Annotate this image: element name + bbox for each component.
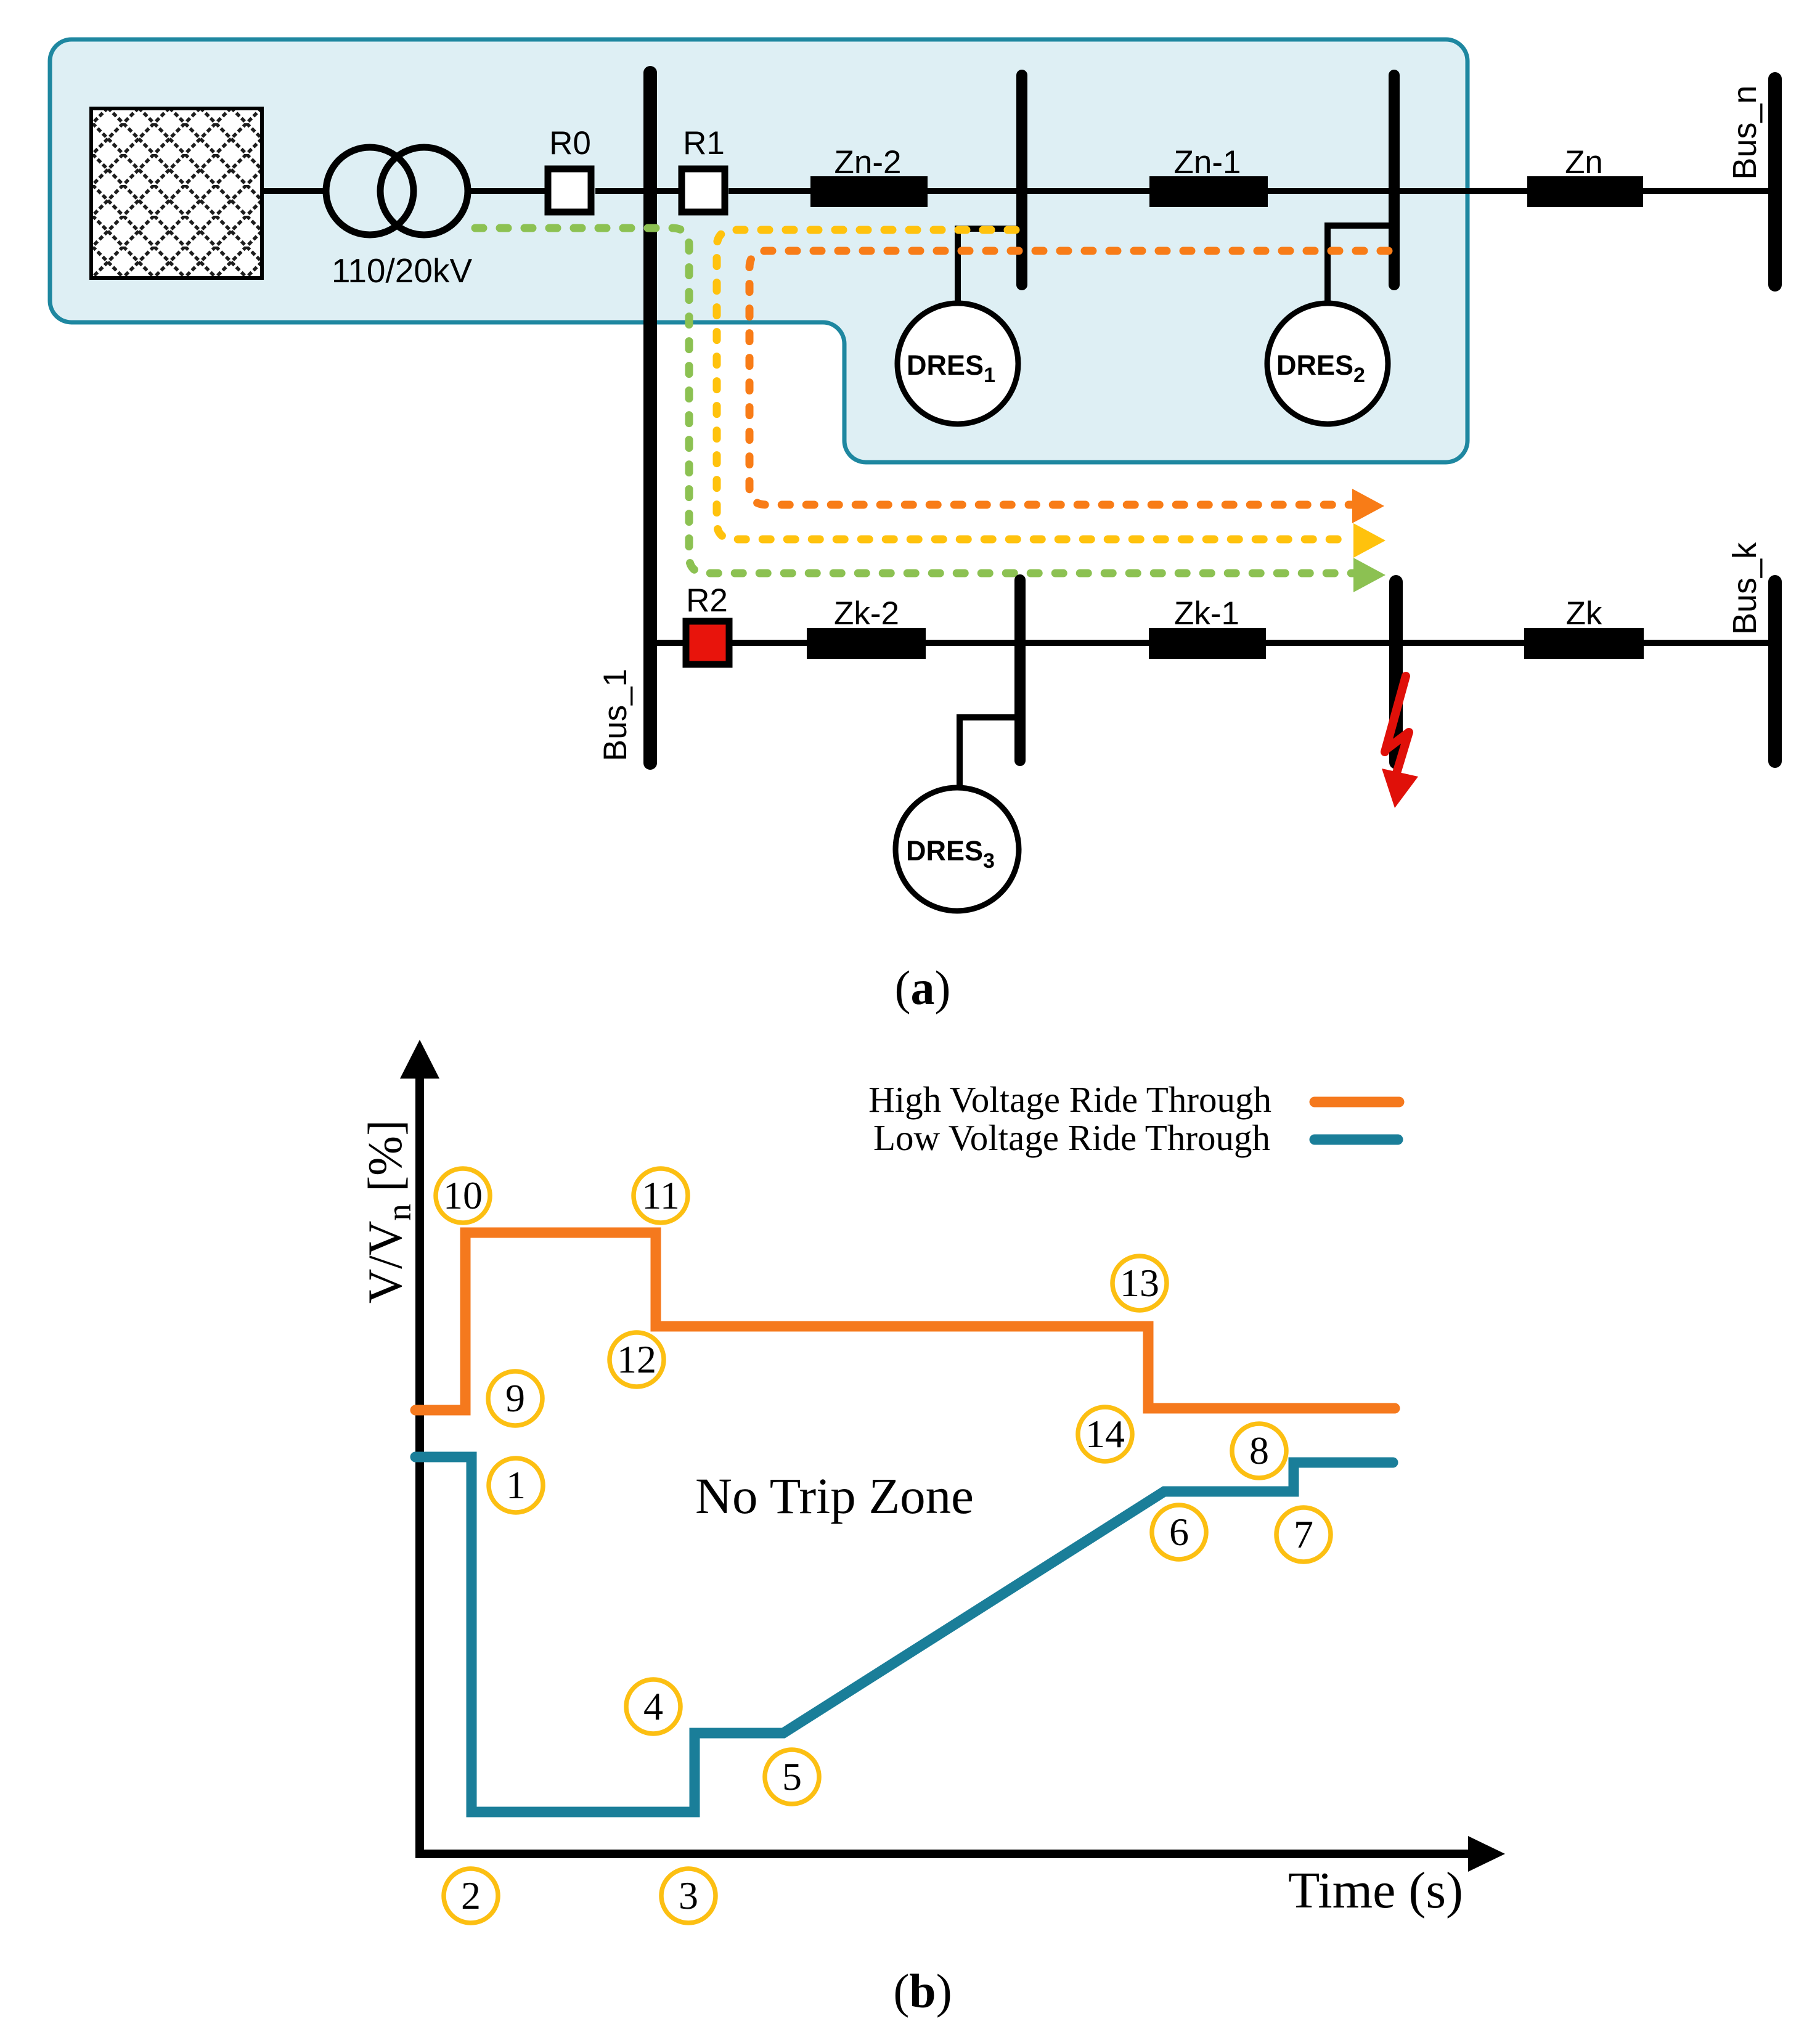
wire fault bus to Zk bbox=[1399, 640, 1527, 646]
svg-text:No Trip Zone: No Trip Zone bbox=[695, 1467, 974, 1524]
fault current path from grid (green dashed) bbox=[475, 228, 1353, 573]
impedance Zk bbox=[1524, 628, 1644, 659]
svg-text:3: 3 bbox=[679, 1874, 698, 1917]
svg-text:14: 14 bbox=[1085, 1412, 1125, 1456]
svg-text:R1: R1 bbox=[683, 125, 725, 161]
svg-text:Bus_1: Bus_1 bbox=[597, 669, 634, 761]
marker 1 bbox=[489, 1458, 543, 1512]
svg-text:(a): (a) bbox=[895, 961, 951, 1014]
marker 13 bbox=[1112, 1256, 1167, 1310]
wire DRES3 tap bbox=[960, 717, 1016, 788]
marker 3 bbox=[661, 1869, 716, 1923]
marker 5 bbox=[765, 1750, 819, 1804]
DRES3 generator bbox=[896, 788, 1019, 911]
lower feeder: wire Bus_1 to R2 bbox=[653, 640, 684, 646]
svg-text:10: 10 bbox=[443, 1173, 483, 1217]
wire Zn-1 to DRES2 bus bbox=[1268, 188, 1393, 194]
svg-text:9: 9 bbox=[505, 1376, 525, 1420]
bus Bus_k bbox=[1768, 582, 1782, 761]
svg-text:Zn-2: Zn-2 bbox=[835, 144, 902, 181]
wire Zk-1 to fault bus bbox=[1266, 640, 1393, 646]
wire Bus_1 to R1 bbox=[653, 188, 680, 194]
marker 4 bbox=[626, 1679, 680, 1734]
wire Zn-2 to DRES1 bus bbox=[928, 188, 1020, 194]
wire grid to transformer bbox=[262, 188, 327, 194]
svg-text:110/20kV: 110/20kV bbox=[332, 251, 473, 290]
svg-text:Zn-1: Zn-1 bbox=[1174, 144, 1241, 181]
DRES1 generator bbox=[897, 303, 1018, 424]
svg-text:Zk-1: Zk-1 bbox=[1174, 595, 1239, 632]
node DRES3 bus bbox=[1014, 580, 1026, 761]
node fault bus bbox=[1389, 582, 1403, 762]
protection zone shaded region bbox=[50, 39, 1467, 462]
svg-text:6: 6 bbox=[1169, 1510, 1189, 1554]
svg-text:Zk-2: Zk-2 bbox=[834, 595, 899, 632]
chart y-axis bbox=[415, 1079, 424, 1854]
fault current path from DRES1 (yellow dashed) bbox=[717, 230, 1353, 539]
bus Bus_n bbox=[1768, 79, 1782, 285]
svg-text:4: 4 bbox=[643, 1684, 663, 1728]
marker 9 bbox=[488, 1371, 542, 1426]
point markers 1-14 bbox=[436, 1169, 1331, 1923]
svg-text:R0: R0 bbox=[549, 125, 591, 161]
marker 11 bbox=[634, 1169, 688, 1223]
svg-text:Bus_k: Bus_k bbox=[1726, 542, 1763, 635]
marker 14 bbox=[1078, 1407, 1132, 1461]
wire DRES3 bus to Zk-1 bbox=[1022, 640, 1152, 646]
wire DRES2 tap bbox=[1328, 226, 1390, 302]
svg-text:(b): (b) bbox=[893, 1964, 952, 2018]
relay R1 bbox=[682, 169, 725, 212]
svg-text:Time (s): Time (s) bbox=[1288, 1862, 1463, 1919]
wire R1 to Zn-2 bbox=[728, 188, 814, 194]
marker 6 bbox=[1152, 1505, 1206, 1559]
node DRES2 bus bbox=[1389, 75, 1400, 285]
svg-text:Bus_n: Bus_n bbox=[1726, 85, 1763, 179]
fault lightning symbol bbox=[1385, 676, 1409, 779]
svg-text:13: 13 bbox=[1120, 1261, 1159, 1305]
marker 10 bbox=[436, 1169, 490, 1223]
marker 7 bbox=[1276, 1508, 1331, 1562]
wire Zk-2 to DRES3 bus bbox=[926, 640, 1018, 646]
svg-text:11: 11 bbox=[642, 1173, 680, 1217]
wire R0 to Bus_1 bbox=[595, 188, 647, 194]
svg-text:Zk: Zk bbox=[1566, 595, 1602, 632]
svg-text:1: 1 bbox=[506, 1463, 526, 1507]
wire DRES1 tap bbox=[958, 229, 1018, 302]
marker 8 bbox=[1232, 1424, 1286, 1478]
wire Zn to Bus_n bbox=[1643, 188, 1772, 194]
impedance Zk-1 bbox=[1149, 628, 1266, 659]
svg-text:Zn: Zn bbox=[1565, 144, 1603, 181]
node DRES1 bus bbox=[1016, 75, 1027, 285]
wire Zk to Bus_k bbox=[1644, 640, 1772, 646]
impedance Zn-1 bbox=[1149, 176, 1268, 207]
svg-text:R2: R2 bbox=[686, 582, 728, 619]
external grid source bbox=[91, 108, 262, 278]
wire R2 to Zk-2 bbox=[732, 640, 810, 646]
wire DRES1 bus to Zn-1 bbox=[1024, 188, 1153, 194]
svg-text:Low Voltage Ride Through: Low Voltage Ride Through bbox=[873, 1117, 1270, 1158]
Low Voltage Ride Through curve bbox=[415, 1457, 1393, 1812]
svg-text:2: 2 bbox=[461, 1874, 481, 1917]
impedance Zk-2 bbox=[807, 628, 926, 659]
impedance Zn-2 bbox=[810, 176, 928, 207]
svg-text:12: 12 bbox=[617, 1337, 656, 1381]
marker 12 bbox=[610, 1332, 664, 1387]
relay R2 bbox=[686, 621, 729, 664]
DRES2 generator bbox=[1267, 303, 1388, 424]
svg-text:High Voltage Ride Through: High Voltage Ride Through bbox=[868, 1079, 1271, 1120]
bus Bus_1 bbox=[643, 73, 657, 763]
fault current path from DRES2 (orange dashed) bbox=[749, 251, 1389, 505]
impedance Zn bbox=[1527, 176, 1643, 207]
svg-text:7: 7 bbox=[1294, 1512, 1313, 1556]
chart x-axis bbox=[415, 1850, 1471, 1858]
transformer 110/20kV bbox=[326, 147, 414, 235]
svg-text:5: 5 bbox=[782, 1755, 802, 1798]
wire DRES2 bus to Zn bbox=[1397, 188, 1530, 194]
marker 2 bbox=[444, 1869, 498, 1923]
High Voltage Ride Through curve bbox=[415, 1233, 1395, 1410]
wire transformer to R0 bbox=[468, 188, 547, 194]
relay R0 bbox=[548, 169, 591, 212]
svg-text:8: 8 bbox=[1249, 1429, 1269, 1472]
